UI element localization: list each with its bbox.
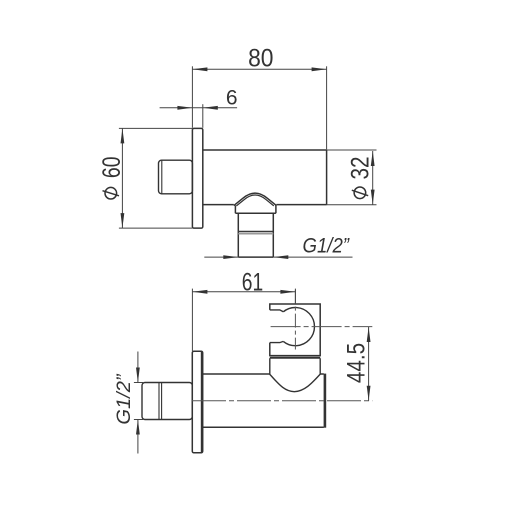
arrows bottom view	[136, 290, 371, 435]
arrow 61 left	[192, 290, 207, 294]
arrow 44.5 top	[367, 327, 371, 342]
dim d32 extension top	[327, 149, 377, 151]
arrow 80 right	[312, 67, 327, 71]
bottom view: bracket bottom band	[270, 357, 320, 359]
top view: stub chamfer line	[161, 161, 163, 194]
arrow 44.5 bottom	[367, 386, 371, 401]
top view: outlet dome inner shell	[236, 195, 273, 206]
arrow d32 top	[371, 151, 375, 166]
arrow d32 bottom	[371, 190, 375, 205]
dim 80 extension left	[191, 66, 193, 128]
top view: outlet dome outer shell	[234, 193, 277, 205]
dim 61 extension left	[191, 289, 193, 351]
svg-text:80: 80	[248, 45, 273, 73]
bottom view: body top line	[203, 373, 324, 375]
top view: outlet dome base	[235, 205, 276, 213]
dim 61 line	[192, 291, 295, 293]
centerline vertical of clip	[294, 290, 296, 350]
svg-text:61: 61	[242, 269, 263, 297]
svg-text:G1/2”: G1/2”	[114, 373, 135, 425]
dim 6 extension	[202, 104, 204, 128]
arrow G1/2 right	[273, 255, 288, 259]
svg-text:6: 6	[226, 86, 238, 109]
arrow 61 right	[280, 290, 295, 294]
top view: body bottom line left	[203, 204, 234, 206]
arrows top view	[121, 67, 375, 259]
arrow d60 top	[121, 128, 125, 143]
dim G1/2 extension bottom	[134, 419, 143, 421]
dim 80 extension right	[326, 66, 328, 149]
bottom view: inlet stub	[142, 383, 192, 420]
bottom view: clip circle	[283, 307, 314, 345]
top view: wall flange (side)	[192, 128, 202, 228]
dim d32 line	[372, 151, 374, 205]
dim 61 extension right	[294, 289, 296, 304]
arrow d60 bottom	[121, 213, 125, 228]
dim d32 extension bottom	[327, 204, 377, 206]
dim G1/2 extension top	[134, 382, 143, 384]
symbol d32	[354, 187, 366, 199]
dim d60 line	[121, 128, 123, 228]
bottom view: stub groove	[159, 383, 162, 420]
bottom view: dome intersection curve	[270, 374, 321, 392]
dim 80 line	[119, 66, 377, 257]
bottom view: flange right edge thick	[201, 351, 203, 452]
arrow 6 right	[203, 106, 218, 110]
arrow G1/2 top	[136, 368, 140, 383]
top view: body bottom line right	[276, 204, 326, 206]
bottom view: body bottom line	[203, 426, 324, 428]
svg-text:32: 32	[347, 157, 375, 180]
top view: body right end	[326, 150, 328, 205]
centerline horizontal of clip	[271, 326, 373, 328]
arrow G1/2 bottom	[136, 420, 140, 435]
bottom view: clip slot bottom	[270, 341, 284, 342]
symbol d60	[105, 187, 117, 199]
centerline body axis	[192, 400, 372, 402]
dim 44.5 line	[368, 327, 370, 401]
bottom view: dome sides	[270, 358, 320, 374]
svg-text:60: 60	[98, 157, 126, 179]
arrow G1/2 left	[223, 255, 238, 259]
top view: outlet pipe	[238, 213, 273, 257]
top view: pipe groove	[238, 231, 273, 233]
dim G1/2 bottom: lower segment	[137, 420, 139, 454]
dim 6 line	[160, 107, 238, 109]
bottom view: clip slot top	[270, 310, 284, 312]
bottom view: holder bracket	[270, 304, 320, 356]
dim G1/2 bottom: upper segment	[137, 352, 139, 383]
svg-text:G1/2”: G1/2”	[303, 235, 350, 258]
dim d60 extension top	[119, 127, 192, 129]
top view: body top line	[203, 149, 327, 151]
leader G1/2 top view	[204, 256, 238, 258]
bottom view: body right end thick	[324, 374, 327, 428]
dim d60 extension bottom	[119, 227, 192, 229]
arrow 80 left	[192, 67, 207, 71]
top view: inlet stub G1/2	[159, 160, 193, 194]
arrow 6 left	[177, 106, 192, 110]
bottom view: wall flange (side)	[192, 351, 202, 453]
svg-text:44.5: 44.5	[342, 343, 370, 383]
